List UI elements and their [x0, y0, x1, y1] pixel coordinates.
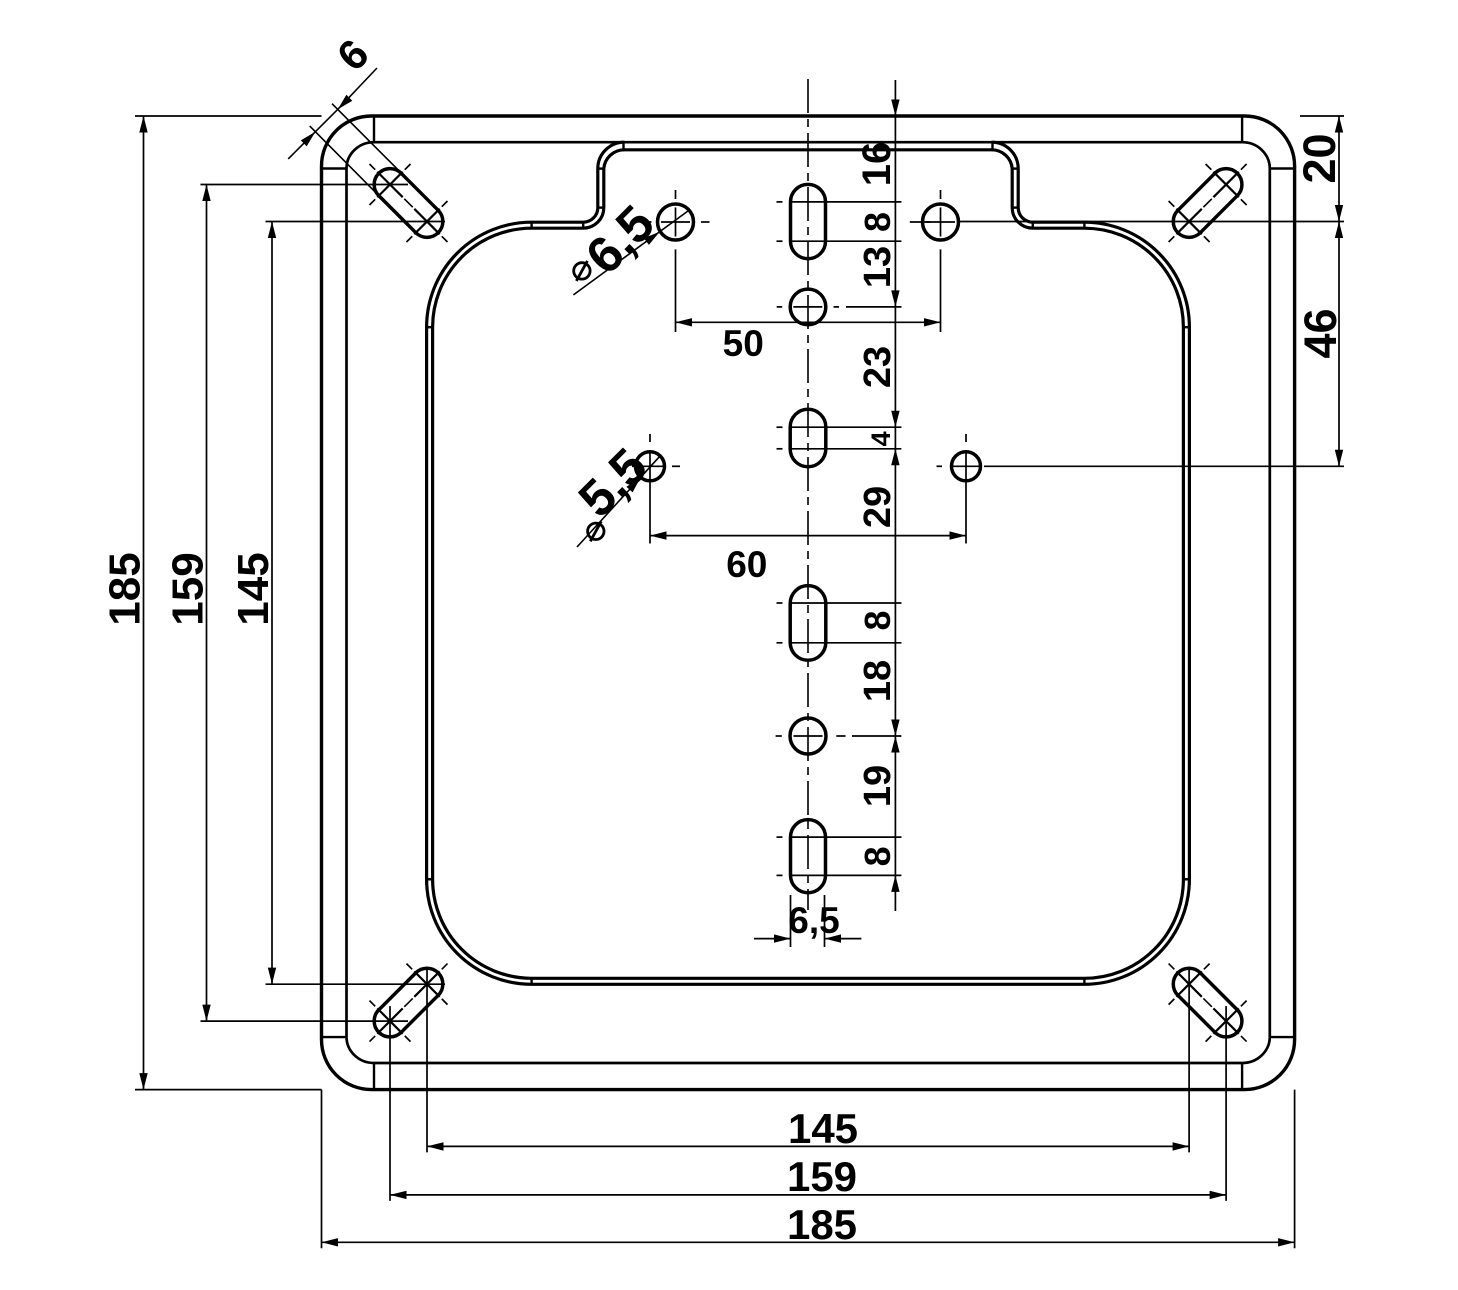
svg-text:50: 50: [723, 323, 764, 364]
svg-text:145: 145: [788, 1105, 858, 1152]
svg-text:159: 159: [787, 1153, 857, 1200]
svg-text:13: 13: [857, 246, 899, 288]
svg-text:23: 23: [857, 346, 899, 388]
svg-text:8: 8: [857, 846, 898, 866]
svg-text:159: 159: [164, 552, 213, 625]
svg-text:8: 8: [857, 610, 898, 630]
svg-text:19: 19: [857, 765, 899, 807]
svg-text:18: 18: [857, 660, 899, 702]
svg-text:4: 4: [866, 431, 896, 446]
svg-text:60: 60: [726, 544, 767, 585]
svg-text:6,5: 6,5: [788, 900, 839, 941]
svg-text:185: 185: [101, 552, 150, 625]
svg-text:46: 46: [1295, 308, 1346, 358]
svg-text:16: 16: [855, 142, 899, 187]
svg-text:20: 20: [1294, 133, 1345, 183]
svg-text:29: 29: [857, 486, 899, 528]
svg-text:145: 145: [229, 552, 278, 625]
svg-text:8: 8: [857, 212, 898, 232]
svg-text:185: 185: [787, 1201, 857, 1248]
